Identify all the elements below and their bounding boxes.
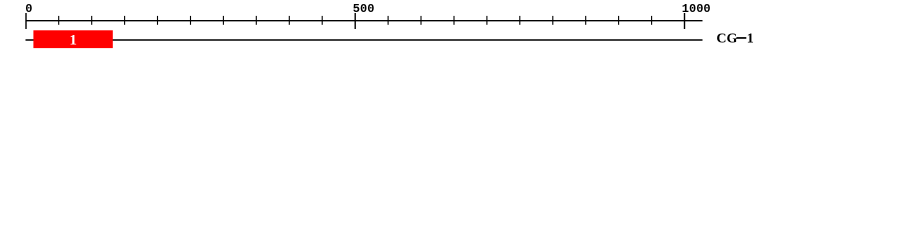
tick 700 [486, 16, 488, 25]
tick 150 [124, 16, 126, 25]
tick 600 [420, 16, 422, 25]
svg-text:1: 1 [747, 32, 754, 47]
major tick 500 [354, 13, 356, 29]
feature box (red, exon 1) [33, 30, 112, 48]
tick 350 [255, 16, 257, 25]
gene name dash (part of CG-1) [736, 37, 746, 39]
svg-text:500: 500 [353, 2, 375, 16]
ruler axis line [26, 20, 703, 22]
tick 100 [91, 16, 93, 25]
feature backbone line [26, 39, 703, 41]
svg-text:CG: CG [716, 32, 737, 47]
tick 650 [453, 16, 455, 25]
tick 550 [387, 16, 389, 25]
tick 900 [618, 16, 620, 25]
tick 950 [651, 16, 653, 25]
tick 850 [585, 16, 587, 25]
tick 200 [157, 16, 159, 25]
major tick 1000 [684, 13, 686, 29]
tick 50 [58, 16, 60, 25]
tick 750 [519, 16, 521, 25]
major tick 0 [25, 13, 27, 29]
tick 300 [222, 16, 224, 25]
tick 450 [321, 16, 323, 25]
svg-text:1: 1 [69, 32, 77, 48]
svg-text:0: 0 [25, 2, 32, 16]
svg-text:1000: 1000 [682, 2, 711, 16]
background [0, 0, 900, 58]
tick 400 [288, 16, 290, 25]
tick 250 [190, 16, 192, 25]
tick 800 [552, 16, 554, 25]
